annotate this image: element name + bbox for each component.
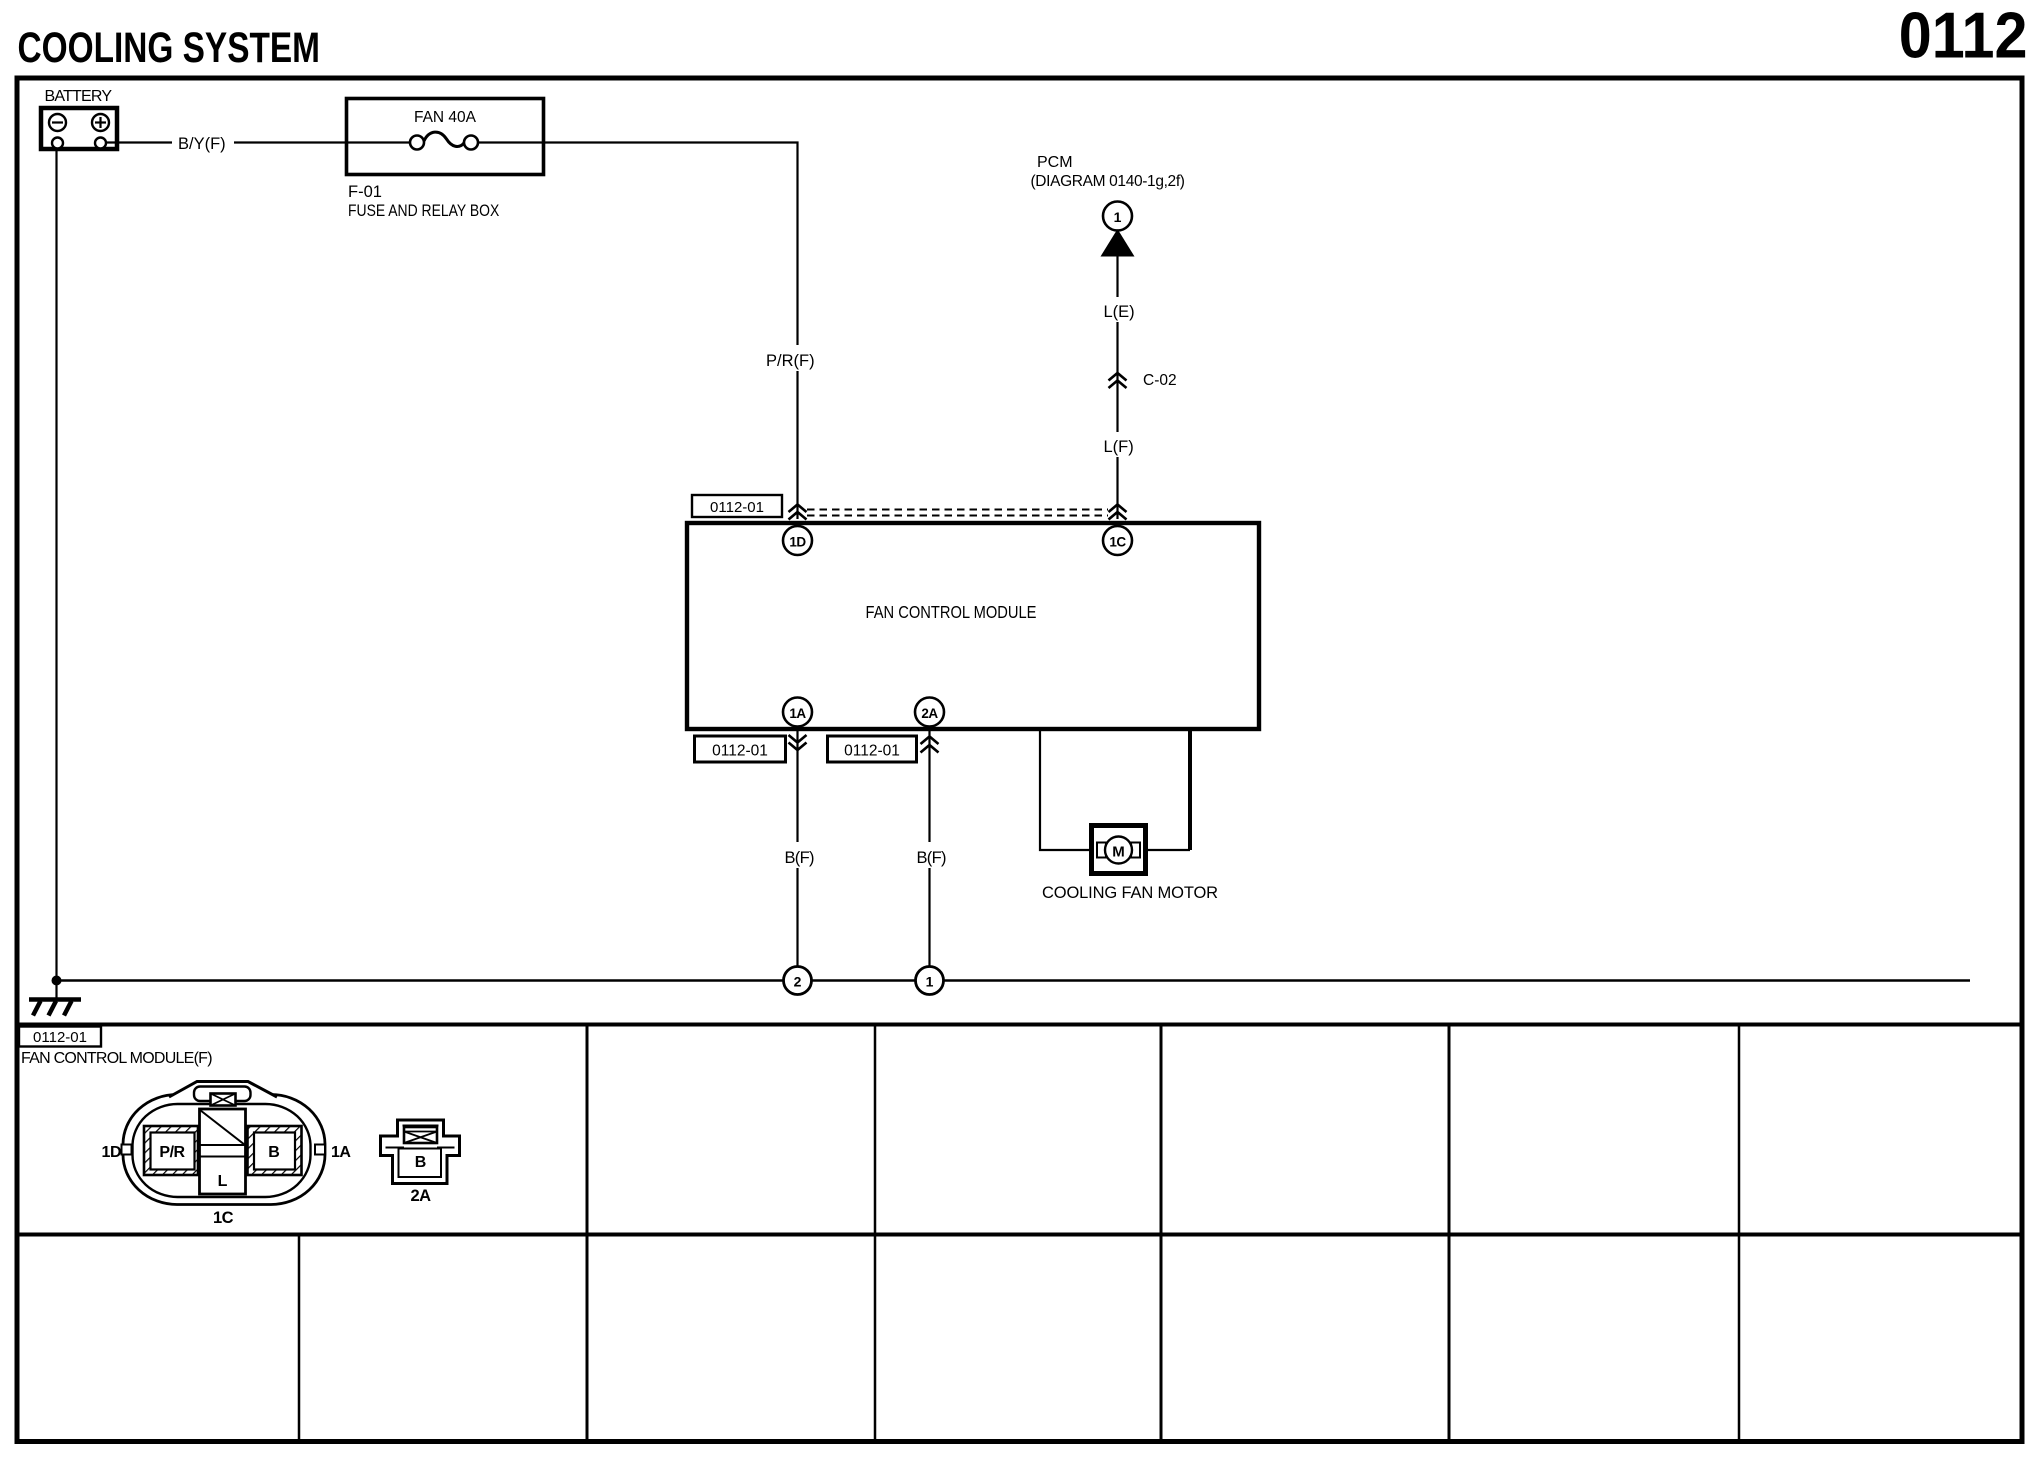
svg-text:B(F): B(F) [785, 849, 814, 867]
node 1 ground circle [916, 967, 944, 995]
pin 1A [783, 698, 812, 727]
pin 2A [915, 698, 944, 727]
svg-text:COOLING SYSTEM: COOLING SYSTEM [18, 24, 320, 72]
wire B(F) pin 2A to ground node 1 [910, 731, 950, 966]
pin cavity B [248, 1126, 302, 1175]
svg-text:1C: 1C [213, 1209, 234, 1227]
wire battery negative to ground bus [55, 149, 57, 1000]
pin cavity P/R [144, 1126, 198, 1175]
fuse F-01 FAN 40A [347, 99, 544, 221]
label box 0112-01 top [692, 495, 782, 517]
svg-text:0112-01: 0112-01 [33, 1029, 87, 1046]
svg-text:B: B [415, 1154, 427, 1171]
connector chevrons below pin 1A [789, 735, 807, 750]
svg-text:1A: 1A [331, 1144, 351, 1161]
svg-text:1C: 1C [1109, 535, 1126, 550]
connector 2A drawing [381, 1120, 460, 1184]
node 1 PCM circle [1103, 202, 1132, 231]
wire B/Y(F) battery to fuse [106, 130, 345, 155]
svg-text:FAN 40A: FAN 40A [414, 109, 477, 126]
svg-text:P/R(F): P/R(F) [766, 352, 815, 370]
ground symbol [29, 1000, 81, 1016]
wire fan control module to cooling fan motor left [1040, 729, 1089, 850]
connector chevrons above pin 1D [789, 505, 807, 520]
junction dot at ground bus [52, 976, 62, 986]
table grid [17, 1025, 2022, 1440]
svg-text:M: M [1112, 844, 1125, 861]
svg-text:BATTERY: BATTERY [45, 88, 113, 105]
svg-text:B: B [268, 1144, 280, 1161]
svg-text:F-01: F-01 [348, 183, 382, 201]
ground bus wire [57, 979, 1971, 982]
connector chevrons above pin 1C [1109, 505, 1127, 520]
svg-text:C-02: C-02 [1143, 372, 1177, 389]
svg-text:0112-01: 0112-01 [710, 499, 764, 516]
label box 0112-01 below pin 1A [695, 736, 786, 762]
svg-text:1: 1 [926, 974, 934, 990]
connector C-02 chevrons [1109, 373, 1127, 388]
connector chevrons below pin 2A [921, 737, 939, 753]
connector notch 1D side [122, 1145, 132, 1155]
svg-text:B/Y(F): B/Y(F) [178, 135, 226, 153]
svg-text:L(F): L(F) [1104, 438, 1134, 456]
wire B(F) pin 1A to ground node 2 [778, 731, 818, 966]
svg-text:COOLING FAN MOTOR: COOLING FAN MOTOR [1042, 884, 1218, 902]
svg-text:(DIAGRAM 0140-1g,2f): (DIAGRAM 0140-1g,2f) [1031, 173, 1185, 190]
pin 1C [1103, 526, 1132, 555]
PCM arrow triangle [1101, 229, 1135, 257]
svg-text:L: L [218, 1173, 228, 1190]
svg-text:FAN CONTROL MODULE: FAN CONTROL MODULE [866, 603, 1037, 622]
wire cooling fan motor to fan control module right [1148, 849, 1190, 851]
svg-text:0112-01: 0112-01 [712, 743, 768, 760]
harness dashed lines 1D to 1C [807, 510, 1108, 516]
svg-text:FUSE AND RELAY BOX: FUSE AND RELAY BOX [348, 202, 499, 220]
svg-text:FAN CONTROL MODULE(F): FAN CONTROL MODULE(F) [21, 1050, 212, 1067]
svg-text:B(F): B(F) [917, 849, 946, 867]
svg-text:0112: 0112 [1899, 0, 2028, 72]
label box 0112-01 below pin 2A [828, 736, 917, 762]
fan control module box [687, 523, 1259, 729]
svg-text:1D: 1D [102, 1144, 121, 1161]
node 2 ground circle [784, 967, 812, 995]
svg-text:L(E): L(E) [1104, 303, 1135, 321]
label box 0112-01 table [19, 1027, 101, 1047]
cooling fan motor [1042, 826, 1218, 903]
svg-text:2A: 2A [410, 1187, 431, 1205]
svg-text:2A: 2A [921, 706, 938, 721]
svg-text:P/R: P/R [159, 1144, 185, 1161]
svg-text:1A: 1A [789, 706, 806, 721]
pin 1D [783, 526, 812, 555]
PCM label [1031, 154, 1185, 190]
wire L(E)/L(F) PCM to fan control module pin 1C [1098, 257, 1139, 520]
connector 0112-01 drawing (fan control module face) [123, 1082, 325, 1205]
svg-text:1: 1 [1114, 209, 1122, 225]
battery [41, 88, 117, 149]
svg-text:PCM: PCM [1037, 154, 1073, 171]
svg-text:1D: 1D [789, 535, 806, 550]
svg-text:0112-01: 0112-01 [844, 743, 900, 760]
svg-text:2: 2 [794, 974, 802, 990]
pin cavity blocked + L [200, 1109, 246, 1194]
connector notch 1A side [315, 1145, 325, 1155]
wire P/R(F) fuse to fan control module pin 1D [543, 143, 832, 520]
